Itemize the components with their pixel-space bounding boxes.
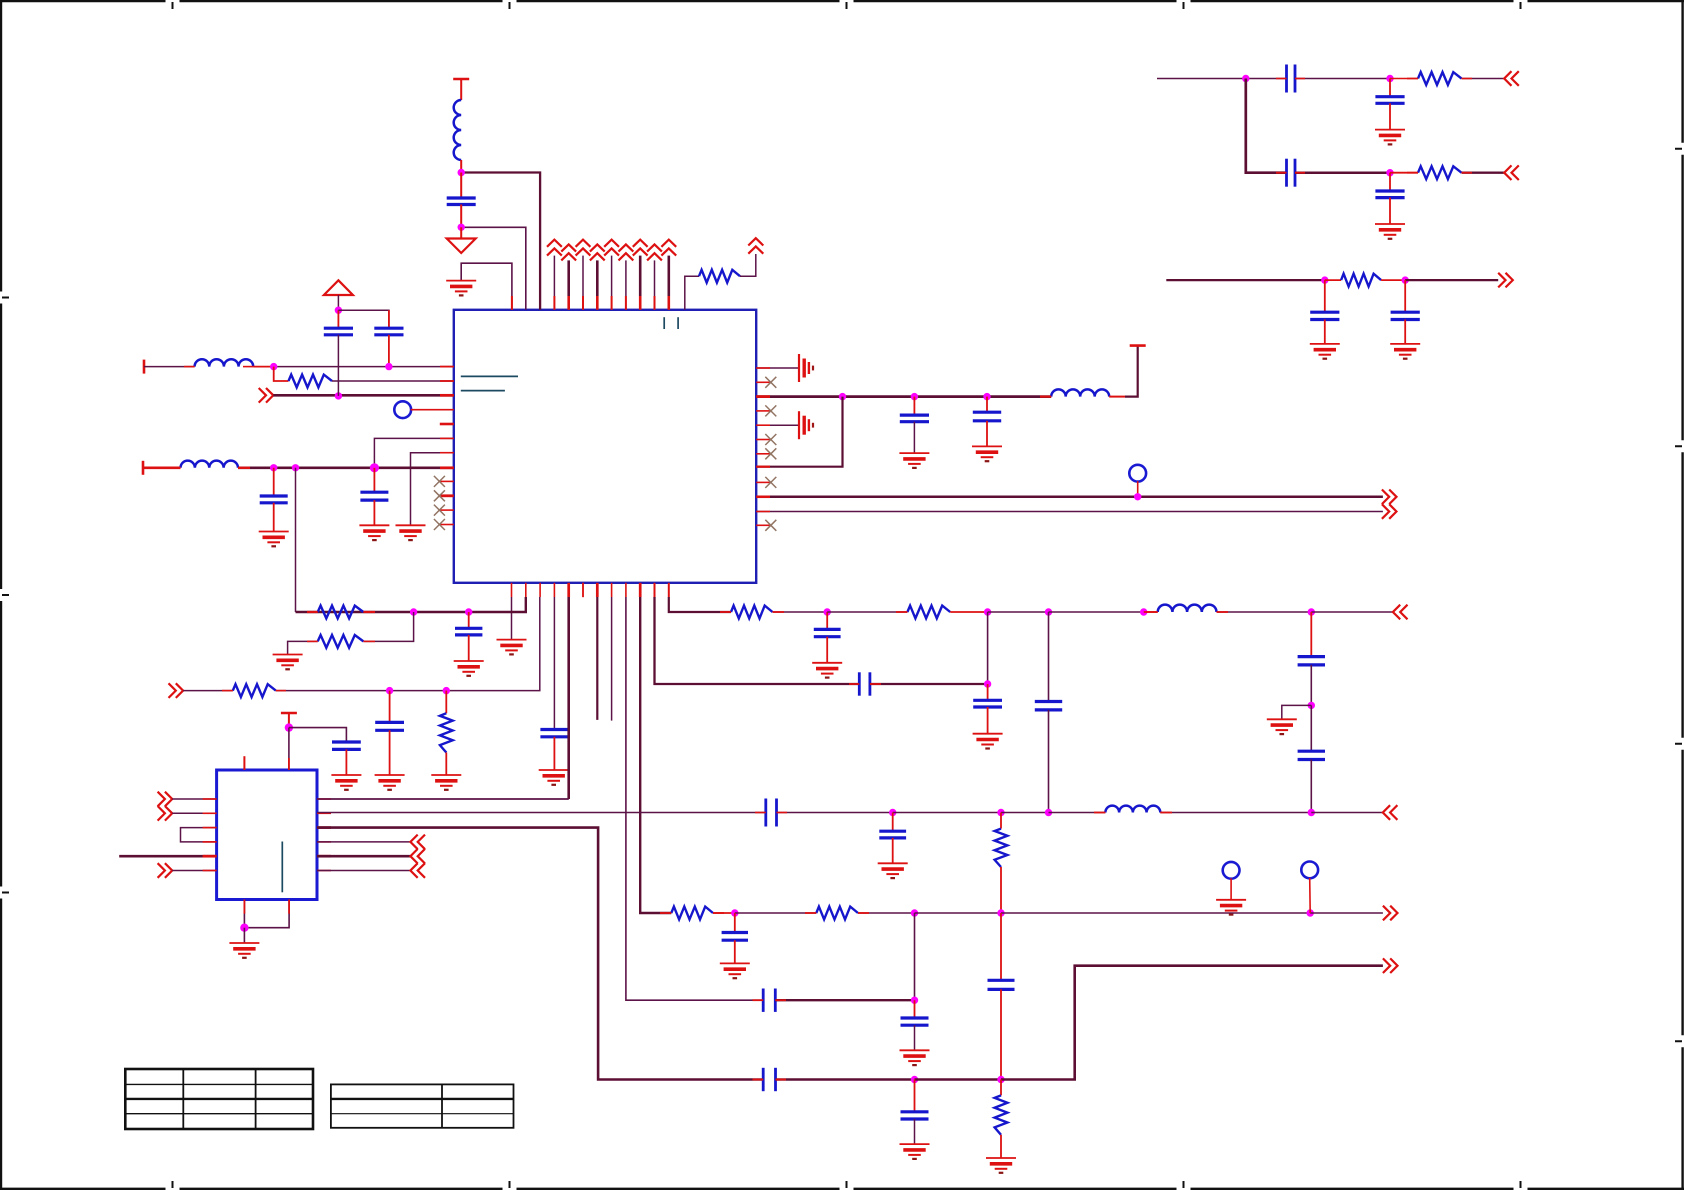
wire junction A2 to resistor R3 <box>1390 78 1418 80</box>
capacitor C9 <box>1375 97 1404 104</box>
resistor R12 <box>995 829 1008 867</box>
ground G4 <box>359 525 389 540</box>
wire arrow to U2 pin L2 <box>172 812 216 814</box>
off-sheet arrow A2 (input) <box>259 388 274 403</box>
wire R3 to arrow <box>1462 78 1505 80</box>
wire junction x914 row1080 down to capacitor C31 <box>914 1080 916 1112</box>
off-sheet arrow A15 (U2 row6) <box>410 863 425 878</box>
wire junction to arrow row913 <box>1310 912 1383 914</box>
wire IC row7 to ground G2 <box>411 453 454 526</box>
bus wire arrow to IC pin row3 <box>273 394 454 397</box>
power terminal bar T4 <box>281 712 297 715</box>
wire arrow to U2 pin L1 <box>172 798 216 800</box>
capacitor C5 <box>360 492 388 500</box>
ground G17 <box>431 775 461 790</box>
ground G19 <box>812 663 842 678</box>
stub NC2 to row913 junction <box>1309 878 1312 913</box>
red pin stubs U2 left <box>203 799 217 871</box>
ground G18 <box>539 770 569 785</box>
off-sheet arrow A5 (input) <box>1504 71 1519 86</box>
wire junction down to resistor R9 <box>445 691 447 714</box>
off-sheet chevron pin P4 on IC top <box>590 244 605 260</box>
wire junction x893 down to capacitor C25 <box>892 813 894 832</box>
capacitor C22 <box>1298 751 1325 759</box>
dangling wire pin b6 <box>596 597 598 720</box>
ground G16 <box>375 775 405 790</box>
wire arrow to resistor R8 <box>183 690 233 692</box>
ground G21 <box>1267 719 1297 734</box>
wire U2 row4 to chevron arrow <box>317 841 410 843</box>
power symbol triangle-down <box>447 239 476 254</box>
inductor L1 (vertical) <box>454 100 461 160</box>
wire ground to IC pin x511 (L shape) <box>461 263 512 310</box>
junction dot x1001 row813 <box>997 809 1004 816</box>
power row from IC right pin3 <box>756 395 1051 398</box>
ground G5 (right-facing) <box>799 354 813 382</box>
wire junction to resistor R11 <box>827 611 907 613</box>
ground G29 <box>986 1158 1016 1173</box>
ground G13 <box>497 640 527 655</box>
vertical wire x1048: row612 to series cap <box>1048 612 1050 702</box>
junction node1 <box>458 169 465 176</box>
wire C10 to junction B2 <box>1295 171 1390 174</box>
off-sheet arrow A14 (U2 row5) <box>410 849 425 864</box>
long wire row from IC right pin k10 <box>756 511 1383 513</box>
junction dot circle/bus <box>1134 493 1141 500</box>
wire node2 to power-down symbol <box>460 227 462 238</box>
junction dot x1048 row612 <box>1045 608 1052 615</box>
long input bus wire to U2 pin L5 <box>119 855 216 858</box>
wire junction to junction x1048 <box>1001 812 1049 814</box>
no-connect X at left pin y=524.5 <box>434 519 445 530</box>
wire chevron pin P5 to IC <box>611 256 613 310</box>
bus wire row A junction down to row B <box>1246 79 1287 173</box>
no-connect X at right pin y=382.3 <box>765 377 776 388</box>
ground G10 <box>1375 224 1405 239</box>
resistor R1 <box>699 270 740 283</box>
wire C13 to ground G12 <box>1404 320 1406 344</box>
wire junction to resistor R7 (via left) <box>363 612 413 641</box>
resistor R10 <box>731 606 773 619</box>
off-sheet arrow A4 (output) <box>1382 504 1397 519</box>
wire C26 to ground G25 <box>734 940 736 963</box>
wire R4 to arrow <box>1462 172 1505 174</box>
no-connect X marks on IC right pins <box>756 381 770 383</box>
resistor R9 <box>440 713 453 752</box>
junction dot row A <box>1242 75 1249 82</box>
inductor L5 <box>1158 605 1217 612</box>
junction dot x893 row813 <box>889 809 896 816</box>
junction dots on right power row <box>839 393 846 400</box>
off-sheet chevron pin P3 on IC top <box>576 240 591 256</box>
capacitor C1 <box>447 198 476 205</box>
junction dot x1311 y705 <box>1308 702 1315 709</box>
wire junction down to capacitor C17 <box>826 612 828 629</box>
junction dot row1 <box>270 363 277 370</box>
ground G22 <box>331 775 361 790</box>
wire chevron pin P8 to IC <box>654 260 656 309</box>
wire U2 bottom pins join <box>243 900 245 928</box>
ground G6 <box>899 453 929 468</box>
wire IC right pin1 to rotated ground <box>756 367 799 369</box>
wire IC pin b9 down to row y913 <box>640 597 671 913</box>
wire R7 to ground G14 <box>288 641 318 654</box>
capacitor C29 <box>901 1018 929 1025</box>
wire C1 down to capacitor C12 <box>1324 280 1326 312</box>
junction dot x988 row612 <box>984 608 991 615</box>
no-connect X at left pin y=495.8 <box>434 490 445 501</box>
off-sheet up arrow A1 <box>748 238 763 254</box>
wire chevron pin P9 to IC <box>667 256 670 310</box>
junction dot x1310 row913 <box>1307 909 1314 916</box>
ground G26 <box>1216 900 1246 915</box>
wire junction down to resistor R2 <box>274 367 289 381</box>
wire R14 to junction x914 <box>858 912 915 914</box>
junction dot C3/row1 <box>385 363 392 370</box>
wire junction x1001 down to capacitor C27 <box>1000 913 1002 980</box>
resistor R6 <box>318 606 364 619</box>
wire VCC to inductor <box>460 79 462 100</box>
wire T4 to junction <box>288 713 290 728</box>
junction dots row y691 <box>386 687 393 694</box>
capacitor C21 <box>1298 657 1325 665</box>
wire C11 to ground G10 <box>1389 198 1391 224</box>
capacitor C10 (series) <box>1287 159 1296 187</box>
wire junction x735 down to capacitor C26 <box>734 913 736 933</box>
wire R8 to IC pin b2 row y691 <box>276 597 540 691</box>
wire junction down to capacitor C19 <box>987 684 989 700</box>
vertical wire x1311: row612 down to capacitor C21 <box>1310 612 1312 657</box>
wire IC pin b10 down to row y684 <box>655 597 860 684</box>
wire cap junction to capacitor C3 <box>338 310 389 328</box>
wire A2 down to capacitor C9 <box>1389 79 1391 97</box>
wire junction to arrow row813 <box>1311 812 1383 814</box>
wire node1 to IC pin x540 (down) <box>461 173 540 310</box>
junction dot B2 <box>1386 169 1393 176</box>
wire junction x1001 down to resistor R12 <box>1000 813 1002 829</box>
wire net row C start <box>1166 279 1325 281</box>
capacitor C23 <box>332 742 361 749</box>
wire row1080 to corner and up to row y966 <box>1001 966 1383 1080</box>
ground G15 <box>454 661 484 676</box>
capacitor C17 <box>814 629 841 636</box>
wire L3 to IC row8 (bus) <box>238 466 454 469</box>
wire inductor to node1 <box>460 160 462 173</box>
red pin stubs IC bottom <box>512 583 669 597</box>
wire C3 down to row1 <box>388 335 390 367</box>
inductor L4 <box>1051 389 1109 396</box>
off-sheet chevron pin P8 on IC top <box>647 244 662 260</box>
ground G28 <box>900 1144 930 1159</box>
wire circle to IC <box>411 409 454 411</box>
U-loop wire U2 pins L3-L4 <box>181 828 217 842</box>
wire C9 to ground G9 <box>1389 103 1391 129</box>
wire IC pin b4 to small IC row1 <box>567 597 570 799</box>
red pin stub row8 <box>440 466 454 469</box>
wire C29 to ground G27 <box>914 1025 916 1050</box>
long bus row from IC right pin k9 <box>756 496 1383 499</box>
off-sheet arrow A13 (U2 row4) <box>410 835 425 850</box>
wire T2 to inductor L3 <box>143 466 181 469</box>
vertical wire x1048: cap to row y813 <box>1048 710 1050 813</box>
junction dot x988 row684 <box>984 680 991 687</box>
wire junction down to capacitor C29 <box>914 1000 916 1018</box>
ground G8 (right-facing) <box>799 411 813 439</box>
wire junction down to capacitor C15 <box>389 691 391 723</box>
junction dot x1311 row612 <box>1308 608 1315 615</box>
resistor R14 <box>816 907 858 920</box>
wire L5 to junction x1311 <box>1217 611 1312 613</box>
red pin stub row2 <box>440 380 454 382</box>
wire net row A start <box>1157 78 1287 80</box>
no-connect circle NC2 <box>1301 862 1318 879</box>
wire L2 to junction <box>253 366 274 368</box>
off-sheet arrow A8 (input) <box>169 683 184 698</box>
capacitor C31 <box>901 1112 929 1119</box>
wire IC row6 loop to row2-junction <box>374 438 453 467</box>
vertical wire x988 row612 to row684 <box>987 612 989 684</box>
no-connect X at left pin y=510.1 <box>434 505 445 516</box>
revision table 1 <box>125 1069 313 1129</box>
off-sheet arrow A6 (input) <box>1504 165 1519 180</box>
wire R1 to up arrow <box>740 254 756 276</box>
wire L4 up to terminal T3 <box>1109 396 1125 398</box>
capacitor C4 <box>260 496 288 503</box>
capacitor C11 <box>1375 191 1404 198</box>
wire junction down to capacitor C22 <box>1310 705 1312 751</box>
junction dot x1144 row612 <box>1140 608 1147 615</box>
junction dot T4 <box>285 723 293 731</box>
resistor R11 <box>907 606 950 619</box>
junction dots row y612 left <box>410 608 417 615</box>
wire junction to capacitor C23 <box>289 728 347 742</box>
capacitor C6 <box>900 415 929 422</box>
capacitor C30 (series) <box>763 1068 775 1091</box>
no-connect X at right pin y=525.3 <box>765 520 776 531</box>
wire junction to resistor R14 <box>735 912 817 914</box>
wire R2 to IC pin row2 <box>332 380 454 382</box>
off-sheet arrow A16 (row813) <box>1383 805 1398 820</box>
capacitor C24 (series) <box>766 799 777 827</box>
capacitor C2 <box>324 328 353 335</box>
wire IC pin b8 down to row y1000 <box>626 597 763 1000</box>
capacitor C15 <box>375 722 404 730</box>
resistor R1 to pull-up arrow <box>685 276 699 310</box>
junction dot x735 row913 <box>731 909 738 916</box>
wire U2 row5 to chevron arrow <box>317 855 410 858</box>
ground G2 <box>396 525 426 540</box>
wire C22 down to row y813 <box>1310 760 1312 813</box>
capacitor C18 (series) <box>859 672 870 695</box>
off-sheet arrow A10 (U2 row1) <box>158 792 173 807</box>
capacitor C3 <box>374 328 403 335</box>
wire triangle to cap junction <box>337 295 339 310</box>
ground G20 <box>973 734 1003 749</box>
ground G25 <box>720 963 750 978</box>
wire C16 to ground G18 <box>553 737 555 770</box>
wire C24 to junction x893 <box>777 812 893 814</box>
wire U2 row3 right then down to row y1080 <box>317 828 763 1080</box>
wire chevron pin P4 to IC <box>596 260 599 309</box>
wire junction to inductor L5 <box>1144 611 1158 613</box>
wire dot to capacitor C7 <box>986 397 988 413</box>
wire chevron pin P2 to IC <box>567 260 570 309</box>
wire IC pin b0 to ground G13 <box>511 597 513 640</box>
wire C18 to junction x988 row684 <box>870 683 988 685</box>
off-sheet chevron pin P9 on IC top <box>661 240 676 256</box>
stub wire junction to ground G21 <box>1282 705 1312 719</box>
resistor R13 <box>671 907 713 920</box>
wire chevron pin P6 to IC <box>625 260 627 309</box>
capacitor C16 <box>540 730 568 737</box>
junction dot C1 <box>1321 276 1328 283</box>
pin stub red x511 <box>511 296 513 310</box>
wire C28 to junction x914 row1000 <box>775 999 914 1001</box>
capacitor C7 <box>973 412 1001 421</box>
wire U2 row6 to chevron arrow <box>317 870 410 872</box>
wire junction to junction x1048 <box>988 611 1049 613</box>
wire U2 row1 right to IC pin b4 column <box>317 798 569 800</box>
red pin stub row3 <box>440 394 454 397</box>
off-sheet chevron pin P5 on IC top <box>604 240 619 256</box>
off-sheet chevron pin P1 on IC top <box>547 240 562 256</box>
power terminal bar T3 <box>1130 344 1146 347</box>
junction dot on row3 <box>335 392 342 399</box>
wire chevron pin P1 to IC <box>553 256 555 310</box>
IC U1 body <box>454 310 756 583</box>
wire junction to inductor L6 <box>1049 812 1106 814</box>
wire junction x914 down to junction row1000 <box>914 913 916 1000</box>
ground G14 <box>273 655 303 670</box>
off-sheet chevron pin P2 on IC top <box>561 244 576 260</box>
IC U2 inner text mark line <box>281 842 283 893</box>
junction dot x1001 row1080 <box>997 1076 1004 1083</box>
wire junction to junction x1001 row1080 <box>915 1078 1002 1081</box>
wire C21 to junction x1311 y705 <box>1310 665 1312 706</box>
off-sheet arrow A9 (row612) <box>1393 605 1408 620</box>
ground G7 <box>972 446 1002 461</box>
capacitor C27 <box>988 980 1015 989</box>
junction dot x914 row913 <box>911 909 918 916</box>
wire arrow to U2 pin L6 <box>172 870 216 872</box>
no-connect circle NC1 <box>1223 862 1240 879</box>
wire R10 to junction <box>773 611 828 613</box>
capacitor C13 <box>1391 312 1420 319</box>
power symbol triangle-up <box>324 280 353 295</box>
capacitor C14 <box>455 628 482 635</box>
wire C19 to ground G20 <box>987 707 989 734</box>
ground G23 <box>229 943 259 958</box>
wire IC pin b3 down to capacitor C16 <box>553 597 555 730</box>
capacitor C19 <box>973 700 1002 707</box>
wire chevron pin P3 to IC <box>582 256 584 310</box>
capacitor C28 (series) <box>763 989 775 1012</box>
wire junction B2 to resistor R4 <box>1390 172 1418 174</box>
wire T1 to inductor L2 <box>144 366 195 368</box>
capacitor C20 (series, vertical) <box>1035 702 1062 710</box>
loop wire dot to IC pin row8 right <box>756 397 842 467</box>
off-sheet arrow A17 (row913) <box>1383 906 1398 921</box>
wire junction C2 to arrow <box>1405 279 1498 281</box>
wire R9 to ground G17 <box>445 753 447 776</box>
resistor R15 <box>995 1095 1008 1134</box>
wire chevron pin P7 to IC <box>639 256 642 310</box>
capacitor C26 <box>722 933 748 941</box>
junction dots on row8 <box>270 464 277 471</box>
wire IC pin b11 down to row y612 right <box>669 597 731 612</box>
input terminal T1 (left) <box>143 360 146 374</box>
ground G9 <box>1375 130 1405 145</box>
wire C12 to ground G11 <box>1324 320 1326 344</box>
junction dot x914 row1000 <box>911 997 918 1004</box>
stub NC1 to ground G26 <box>1230 878 1232 900</box>
junction dot U2 gnd <box>240 924 248 932</box>
input terminal T2 (left) <box>142 461 145 475</box>
no-connect X at right pin y=439.5 <box>765 434 776 445</box>
power terminal bar VCC top <box>453 78 469 81</box>
wire C7 to ground G7 <box>986 421 988 447</box>
wire junction down to capacitor C14 <box>468 612 470 628</box>
wire IC right pin5 to rotated ground G8 <box>756 424 799 426</box>
wire junction to junction x1001 <box>915 912 1002 914</box>
wire IC pin b1 down-left row y612 <box>296 597 526 612</box>
ground G27 <box>900 1050 930 1065</box>
wire row8 junction down to capacitor C5 <box>373 468 375 492</box>
wire junction to IC pin row1 <box>274 366 454 368</box>
junction dot x914 row1080 <box>911 1076 918 1083</box>
off-sheet arrow A11 (U2 row2) <box>158 806 173 821</box>
wire R11 to junction x988 <box>950 611 987 613</box>
wire C17 to ground G19 <box>826 637 828 663</box>
off-sheet arrow A18 (row966) <box>1383 958 1398 973</box>
wire junction into U2 top pin <box>288 728 290 770</box>
junction dot x1048 row813 <box>1045 809 1052 816</box>
no-connect X at right pin y=453.8 <box>765 448 776 459</box>
unconnected red stub row5 <box>440 423 454 426</box>
wire row8 junction down to capacitor C4 <box>273 468 275 496</box>
wire node1 to capacitor C1 <box>460 173 462 199</box>
inductor L3 <box>181 461 239 468</box>
red leads accents <box>170 79 1472 1080</box>
inductor L2 <box>195 359 254 366</box>
no-connect X marks on IC left lower pins <box>439 480 453 482</box>
IC U2 body <box>217 770 317 900</box>
junction dot caps <box>335 307 342 314</box>
no-connect X at right pin y=482.4 <box>765 477 776 488</box>
off-sheet chevron pin P6 on IC top <box>619 244 634 260</box>
dangling wire pin b7 <box>611 597 613 721</box>
wire C30 to junction x914 row1080 <box>776 1078 915 1081</box>
wire R12 down to junction row y913 <box>1000 867 1002 913</box>
capacitor C12 <box>1310 312 1339 319</box>
wire C5 to ground G4 <box>373 500 375 525</box>
wire junction x1001 to junction x1310 <box>1001 912 1310 914</box>
wire L6 to junction x1311 <box>1160 812 1311 814</box>
wire C31 to ground G28 <box>914 1119 916 1144</box>
wire junction to ground G23 <box>243 928 245 943</box>
wire C27 down to junction row1080 <box>1000 989 1002 1079</box>
wire C14 to ground G15 <box>468 635 470 661</box>
unconnected red stub U2 top <box>243 756 245 770</box>
junction dot <box>824 608 831 615</box>
wire U2 row2 right long to series cap <box>317 812 766 814</box>
wire C2 down to row3 junction <box>337 335 339 396</box>
capacitor C8 (series) <box>1287 65 1296 93</box>
wire B2 down to capacitor C11 <box>1389 173 1391 191</box>
off-sheet arrow A12 (U2 row6) <box>158 863 173 878</box>
IC U1 inner text mark lines <box>461 317 678 390</box>
resistor R8 <box>233 684 276 697</box>
